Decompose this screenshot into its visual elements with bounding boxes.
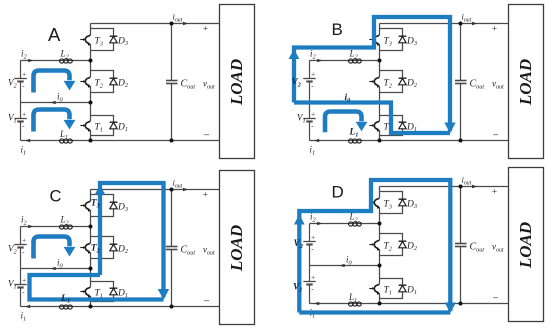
diode D2 (110, 244, 118, 251)
transistor T2 (80, 76, 91, 88)
diode D1 (399, 122, 407, 129)
wire T2/D2 cell box (91, 71, 114, 93)
current arrow i2 (28, 225, 33, 229)
blue current loop B (V1-L1-T1) (325, 112, 362, 133)
svg-text:−: − (204, 296, 210, 308)
svg-text:B: B (332, 20, 343, 39)
wire T2/D2 cell box (380, 71, 403, 93)
wire top output rail (380, 186, 509, 188)
blue arrow D down at output (445, 303, 456, 314)
inductor L1 (60, 305, 73, 309)
svg-text:i0: i0 (346, 255, 353, 267)
wire switch rail (90, 24, 92, 141)
svg-text:i1: i1 (21, 145, 27, 157)
transistor T3 (80, 200, 91, 212)
svg-text:T3: T3 (384, 200, 392, 211)
svg-text:vout: vout (203, 79, 215, 91)
transistor T2 (80, 242, 91, 254)
capacitor Cout (166, 190, 178, 307)
svg-text:vout: vout (203, 245, 215, 257)
svg-text:LOAD: LOAD (227, 59, 246, 106)
svg-text:i1: i1 (21, 311, 27, 323)
current arrow i2 (317, 59, 322, 63)
svg-text:i2: i2 (310, 49, 317, 61)
svg-text:iout: iout (462, 175, 472, 187)
svg-text:iout: iout (173, 178, 183, 190)
LOAD block (509, 5, 544, 159)
blue current loop A upper (V2-L2-T2) (34, 71, 70, 93)
blue arrow B down at output (444, 123, 455, 134)
svg-text:+: + (311, 110, 315, 118)
wire T2/D2 cell box (91, 237, 114, 259)
svg-text:i0: i0 (345, 93, 352, 104)
wire bottom rail i1 row (21, 306, 220, 308)
wire T1/D1 cell box (91, 116, 114, 136)
svg-text:Cout: Cout (181, 245, 196, 257)
current arrow iout (183, 22, 188, 26)
current arrow iout (472, 22, 477, 26)
wire top output rail (91, 189, 220, 191)
inductor L2 (349, 222, 362, 226)
current arrow i0 (340, 264, 345, 268)
node junctions (378, 22, 463, 143)
svg-text:+: + (492, 188, 497, 198)
blue arrow C down at capacitor (158, 289, 169, 300)
inductor L2 (60, 225, 73, 229)
wire T1/D1 cell box (91, 282, 114, 302)
wire i0 row (310, 265, 380, 267)
wire T3/D3 cell box (380, 192, 403, 214)
node junctions (89, 188, 174, 309)
wire i0 row (21, 102, 91, 104)
svg-text:D3: D3 (117, 36, 128, 47)
diode D3 (110, 36, 118, 43)
svg-text:−: − (493, 130, 499, 142)
svg-text:−: − (493, 293, 499, 305)
wire i0 row (21, 268, 91, 270)
svg-text:T2: T2 (384, 242, 393, 253)
voltage source V2 (303, 233, 315, 253)
svg-text:V1: V1 (297, 113, 306, 125)
capacitor Cout (166, 24, 178, 141)
current arrow i1 (25, 139, 30, 143)
svg-text:A: A (48, 24, 61, 45)
voltage source V1 (303, 273, 315, 293)
wire i2 row (310, 60, 380, 62)
wire top output rail (91, 23, 220, 25)
svg-text:D3: D3 (406, 36, 417, 47)
svg-text:+: + (492, 25, 497, 35)
svg-text:V2: V2 (8, 78, 18, 90)
svg-text:L1: L1 (349, 128, 359, 139)
svg-text:-: - (311, 285, 314, 293)
wire i2 row (310, 223, 380, 225)
node junctions (378, 185, 463, 306)
svg-text:L1: L1 (60, 293, 70, 305)
transistor T2 (369, 76, 380, 88)
svg-text:D3: D3 (406, 199, 417, 210)
wire left source rail (20, 227, 22, 307)
svg-text:Cout: Cout (470, 242, 485, 254)
svg-text:vout: vout (492, 242, 504, 254)
blue arrow D up at sources (294, 215, 305, 225)
svg-text:+: + (22, 276, 26, 284)
voltage source V2 (14, 236, 26, 256)
wire switch rail (379, 24, 381, 141)
current arrow i1 (25, 305, 30, 309)
current arrow i1 (314, 139, 319, 143)
transistor T1 (369, 283, 380, 295)
blue current path B main loop (294, 17, 450, 133)
voltage source V1 (14, 110, 26, 130)
wire left source rail (309, 224, 311, 304)
svg-text:V2: V2 (292, 78, 301, 89)
svg-text:V2: V2 (8, 244, 18, 256)
transistor T3 (369, 197, 380, 209)
svg-text:Cout: Cout (181, 79, 196, 91)
voltage source V2 (303, 70, 315, 90)
svg-text:D2: D2 (117, 78, 129, 89)
svg-text:V2: V2 (294, 239, 304, 250)
wire T3/D3 cell box (91, 29, 114, 51)
transistor T3 (369, 34, 380, 46)
inductor L1 (60, 139, 73, 143)
current arrow iout (472, 185, 477, 189)
svg-text:T1: T1 (384, 286, 392, 297)
wire i0 row (310, 102, 380, 104)
svg-text:T2: T2 (95, 79, 104, 90)
diode D1 (399, 285, 407, 292)
wire T1/D1 cell box (380, 116, 403, 136)
wire bottom rail i1 row (21, 140, 220, 142)
wire T2/D2 cell box (380, 234, 403, 256)
diode D2 (110, 78, 118, 85)
svg-text:V1: V1 (8, 279, 17, 291)
svg-text:Cout: Cout (470, 79, 485, 91)
blue current loop A lower (V1-L1-T1) (34, 110, 70, 132)
inductor L2 (349, 59, 362, 63)
svg-text:T2: T2 (384, 79, 393, 90)
diode D3 (399, 36, 407, 43)
current arrow i1 (314, 302, 319, 306)
svg-text:D2: D2 (406, 241, 418, 252)
wire bottom rail i1 row (310, 140, 509, 142)
blue arrow C up at rail (95, 185, 106, 194)
svg-text:+: + (311, 233, 315, 241)
wire i2 row (21, 60, 91, 62)
svg-text:V1: V1 (8, 113, 17, 125)
svg-text:i2: i2 (21, 215, 28, 227)
wire left source rail (309, 61, 311, 141)
wire left source rail (20, 61, 22, 141)
svg-text:i0: i0 (57, 92, 64, 104)
svg-text:D1: D1 (406, 285, 417, 296)
svg-text:iout: iout (173, 12, 183, 24)
wire switch rail (379, 187, 381, 304)
svg-text:i2: i2 (310, 212, 317, 224)
blue current path D main loop (299, 180, 450, 313)
svg-text:+: + (311, 70, 315, 78)
diode D1 (110, 122, 118, 129)
svg-text:D2: D2 (406, 78, 418, 89)
wire T3/D3 cell box (91, 195, 114, 217)
svg-text:T3: T3 (384, 37, 392, 48)
svg-text:T1: T1 (95, 123, 103, 134)
current arrow iout (183, 188, 188, 192)
svg-text:LOAD: LOAD (227, 225, 246, 272)
svg-text:D1: D1 (117, 122, 128, 133)
svg-text:i2: i2 (21, 49, 28, 61)
capacitor Cout (455, 187, 467, 304)
svg-text:LOAD: LOAD (516, 222, 535, 269)
diode D2 (399, 241, 407, 248)
inductor L2 (60, 59, 73, 63)
svg-text:-: - (311, 245, 314, 253)
svg-text:iout: iout (462, 12, 472, 24)
svg-text:D: D (332, 183, 344, 202)
svg-text:i0: i0 (57, 258, 64, 270)
inductor L1 (349, 302, 362, 306)
diode D1 (110, 288, 118, 295)
svg-text:-: - (311, 122, 314, 130)
transistor T1 (80, 120, 91, 132)
LOAD block (220, 5, 255, 159)
svg-text:i1: i1 (310, 145, 316, 157)
svg-text:D2: D2 (117, 244, 129, 255)
LOAD block (220, 171, 255, 325)
svg-text:−: − (204, 130, 210, 142)
capacitor Cout (455, 24, 467, 141)
diode D3 (399, 199, 407, 206)
svg-text:+: + (311, 273, 315, 281)
inductor L1 (349, 139, 362, 143)
svg-text:-: - (22, 248, 25, 256)
transistor T3 (80, 34, 91, 46)
svg-text:-: - (22, 288, 25, 296)
svg-text:vout: vout (492, 79, 504, 91)
LOAD block (509, 168, 544, 322)
current arrow i0 (340, 101, 345, 105)
node junctions (89, 22, 174, 143)
wire bottom rail i1 row (310, 303, 509, 305)
wire T1/D1 cell box (380, 279, 403, 299)
blue current loop C (V2-L2-T2) (34, 237, 70, 259)
blue arrow B up at V2 (289, 49, 300, 59)
voltage source V1 (303, 110, 315, 130)
voltage source V2 (14, 70, 26, 90)
svg-text:+: + (203, 191, 208, 201)
svg-text:-: - (311, 82, 314, 90)
current arrow i0 (51, 267, 56, 271)
svg-text:T3: T3 (95, 37, 103, 48)
svg-text:D3: D3 (117, 202, 128, 213)
wire switch rail (90, 190, 92, 307)
wire i2 row (21, 226, 91, 228)
svg-text:+: + (203, 25, 208, 35)
svg-text:-: - (22, 122, 25, 130)
svg-text:C: C (50, 188, 62, 206)
svg-text:LOAD: LOAD (516, 59, 535, 106)
current arrow i0 (51, 101, 56, 105)
svg-text:+: + (22, 236, 26, 244)
diode D2 (399, 78, 407, 85)
svg-text:+: + (22, 70, 26, 78)
transistor T2 (369, 239, 380, 251)
current arrow i2 (28, 59, 33, 63)
blue current path C main loop (30, 183, 164, 300)
svg-text:+: + (22, 110, 26, 118)
wire T3/D3 cell box (380, 29, 403, 51)
wire top output rail (380, 23, 509, 25)
voltage source V1 (14, 276, 26, 296)
current arrow i2 (317, 222, 322, 226)
diode D3 (110, 202, 118, 209)
transistor T1 (80, 286, 91, 298)
svg-text:-: - (22, 82, 25, 90)
transistor T1 (369, 120, 380, 132)
